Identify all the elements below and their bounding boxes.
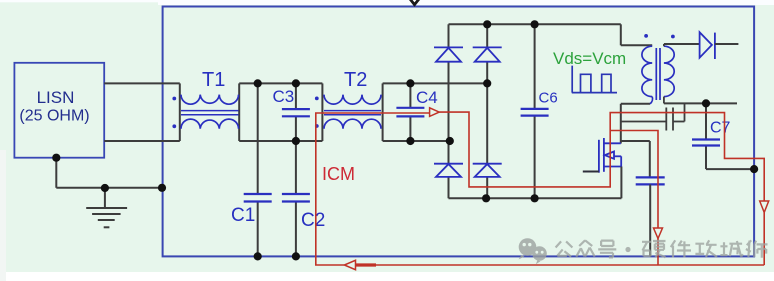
common-mode choke T1 windings bbox=[181, 95, 239, 129]
wire Y-cap to earth bottom bbox=[649, 184, 651, 256]
junction DC- right column bbox=[482, 194, 490, 202]
capacitor C7 (secondary Y-cap) bbox=[692, 103, 754, 169]
svg-text:ICM: ICM bbox=[322, 164, 355, 184]
capacitor C1 bbox=[231, 83, 272, 256]
svg-text:LISN: LISN bbox=[37, 88, 75, 107]
wire top rail down to transformer primary bbox=[620, 24, 622, 45]
ICM path: bottom earth return bbox=[356, 264, 764, 266]
junction AC1 at bridge bbox=[483, 79, 491, 87]
wire DC bottom rail bbox=[449, 197, 622, 199]
wire LISN line N to T1 bbox=[104, 140, 180, 142]
wire primary bottom to MOSFET drain bbox=[621, 103, 650, 105]
diode D5 (output rectifier) bbox=[700, 32, 715, 59]
svg-text:C4: C4 bbox=[416, 88, 438, 107]
ground symbol bbox=[86, 188, 127, 227]
transformer phase dots bbox=[644, 34, 648, 38]
wire bridge left column bbox=[448, 24, 450, 198]
ICM path: Y-cap branch below arrow bbox=[657, 239, 659, 265]
common-mode choke T2 windings bbox=[324, 95, 381, 129]
junction C7 at enclosure right bbox=[750, 165, 758, 173]
svg-text:C2: C2 bbox=[301, 210, 325, 231]
junction DC+ right column bbox=[483, 20, 491, 28]
svg-text:C6: C6 bbox=[539, 90, 558, 107]
ICM arrow down (Y-cap branch) bbox=[654, 228, 663, 239]
wire bridge right column bbox=[486, 24, 488, 198]
junction LISN earth tap bbox=[52, 154, 60, 162]
MOSFET Q1 bbox=[599, 138, 621, 173]
wire MOSFET source to bottom rail bbox=[620, 167, 622, 199]
junction earth at enclosure left bbox=[158, 184, 166, 192]
choke T1 right pin bar bbox=[238, 83, 240, 141]
transformer TX primary winding bbox=[642, 46, 652, 96]
svg-text:C1: C1 bbox=[231, 205, 255, 226]
svg-text:C7: C7 bbox=[710, 120, 731, 137]
capacitor C4 bbox=[396, 83, 437, 141]
junction C4 bottom node bbox=[406, 137, 414, 145]
top connector diamond bbox=[406, 0, 423, 5]
junction DC- at C6 bbox=[531, 194, 539, 202]
wire T1 to T2 top bbox=[239, 82, 322, 84]
capacitor C2 bbox=[282, 194, 325, 256]
transformer TX secondary winding bbox=[664, 46, 674, 96]
junction DC+ at C6 bbox=[531, 20, 539, 28]
svg-text:T1: T1 bbox=[202, 69, 225, 91]
junction C3 bottom node bbox=[292, 137, 300, 145]
junction C1 at earth rail bbox=[254, 252, 262, 260]
junction ground tee bbox=[101, 184, 109, 192]
diode D4 (bridge bottom-right) bbox=[473, 164, 502, 177]
wire secondary bottom return bbox=[663, 97, 665, 104]
interwinding capacitance (parasitic cap) bbox=[621, 103, 685, 130]
T2 phase dots bbox=[315, 97, 319, 101]
watermark text (vector strokes) bbox=[556, 240, 768, 257]
capacitor C6 (bulk) bbox=[521, 24, 558, 198]
choke T2 right pin bar bbox=[382, 83, 384, 141]
wire drain node to Y-cap bbox=[621, 140, 650, 142]
ICM path: Y-cap branch bbox=[610, 131, 658, 229]
ICM path: right edge descent to earth bbox=[763, 212, 765, 265]
wire T2 to bridge bottom (AC2) bbox=[383, 140, 450, 142]
junction C2 at earth rail bbox=[292, 252, 300, 260]
T1 phase dots bbox=[172, 97, 176, 101]
ICM arrow down (right edge) bbox=[760, 201, 769, 212]
ICM path: C4 to drain node, up MOSFET, to secondary and C7 side bbox=[439, 112, 764, 201]
svg-text:T2: T2 bbox=[344, 69, 367, 91]
svg-text:C3: C3 bbox=[273, 87, 295, 106]
ICM arrow through C4 (right) bbox=[430, 108, 440, 117]
Vds square-wave icon bbox=[572, 66, 617, 93]
junction AC2 at bridge bbox=[446, 137, 454, 145]
wire T2 to bridge top (AC1) bbox=[383, 82, 488, 84]
diode D3 (bridge bottom-left) bbox=[434, 164, 463, 177]
svg-text:Vds=Vcm: Vds=Vcm bbox=[553, 49, 626, 68]
ICM arrow bottom (left-pointing) bbox=[344, 260, 355, 269]
svg-text:(25 OHM): (25 OHM) bbox=[19, 108, 89, 125]
junction C4 top node bbox=[406, 79, 414, 87]
wire LISN line L to T1 bbox=[104, 82, 180, 84]
junction C1 top node bbox=[254, 79, 262, 87]
watermark WeChat logo bbox=[519, 238, 547, 264]
wire output positive bbox=[715, 43, 739, 45]
choke T1 left pin bar bbox=[179, 83, 181, 141]
wire secondary top to output diode bbox=[663, 44, 665, 46]
junction C7 top at secondary return bbox=[702, 99, 710, 107]
ground wire from LISN bbox=[55, 158, 57, 188]
ICM path: return through T2 core down to earth bbox=[316, 113, 430, 265]
wire T1 to T2 bottom bbox=[239, 140, 322, 142]
junction C3 top node bbox=[292, 79, 300, 87]
diode D2 (bridge top-right) bbox=[473, 47, 502, 61]
LISN box U-LISN bbox=[14, 63, 104, 158]
choke T2 left pin bar bbox=[321, 83, 323, 141]
diode D1 (bridge top-left) bbox=[434, 47, 463, 61]
wire gate lead bbox=[583, 171, 599, 173]
outer earth/chassis rectangle (blue) bbox=[163, 7, 755, 257]
wire DC top rail bbox=[449, 23, 621, 25]
transformer TX core bbox=[655, 48, 657, 100]
capacitor C3 bbox=[273, 83, 310, 194]
Y-capacitor primary-to-earth (blue plates) bbox=[636, 176, 665, 178]
